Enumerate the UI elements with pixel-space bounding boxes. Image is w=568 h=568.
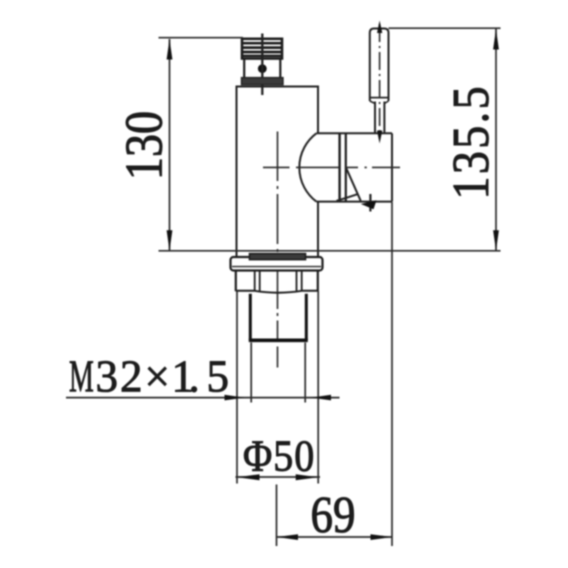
135.5 arrow top	[493, 29, 499, 50]
M32 extension line right	[304, 343, 306, 403]
svg-text:M: M	[69, 353, 94, 402]
phi50 arrow left	[237, 474, 260, 480]
body vertical centerline	[277, 132, 279, 368]
svg-text:130: 130	[115, 111, 174, 180]
cap screw dot	[258, 64, 267, 73]
nut right edge	[317, 271, 319, 292]
lever underside curve	[337, 194, 358, 201]
135.5 arrow bottom	[493, 230, 499, 251]
69 arrow right	[371, 534, 393, 540]
handle shoulder	[370, 97, 389, 99]
phi50 dimension line	[236, 476, 321, 478]
flange collar	[231, 257, 323, 271]
M32 arrow left	[225, 395, 245, 401]
130 arrow top	[167, 39, 173, 60]
faucet body	[237, 87, 319, 257]
outlet flange line 2	[345, 133, 347, 201]
69 extension line left	[276, 485, 278, 547]
lever motion arrow	[361, 200, 377, 209]
handle taper	[370, 101, 389, 104]
130 arrow bottom	[167, 230, 173, 251]
outlet flange line 1	[338, 133, 340, 201]
handle axis centerline	[379, 24, 381, 135]
svg-text:135.5: 135.5	[442, 84, 500, 199]
cap centerline	[261, 34, 263, 96]
nut face line a	[254, 271, 256, 291]
handle stem left	[374, 102, 376, 134]
handle wide part	[370, 29, 389, 102]
outlet ball arc	[299, 133, 316, 201]
69 dimension line	[277, 536, 393, 538]
svg-text:Φ50: Φ50	[243, 433, 315, 481]
M32 extension line left	[250, 343, 252, 403]
handle axis arrow up	[377, 21, 382, 34]
nut face line b	[259, 271, 261, 291]
handle axis arrow down	[377, 131, 382, 144]
phi50 arrow right	[296, 474, 319, 480]
nut left edge	[235, 271, 237, 292]
phi50 extension line left	[236, 291, 238, 484]
side outlet right edge	[391, 133, 393, 201]
side outlet top edge	[316, 132, 392, 134]
135.5 top extension line	[389, 27, 501, 29]
cap dark base band	[242, 78, 284, 85]
nut bottom edge	[236, 291, 318, 293]
lever tip tick	[369, 194, 371, 212]
69 arrow left	[277, 534, 299, 540]
shared bottom extension line	[159, 250, 501, 252]
side outlet bottom edge	[316, 201, 392, 203]
thread tube bottom	[249, 338, 308, 342]
collar inner line	[232, 266, 321, 268]
135.5 dimension line	[495, 29, 497, 251]
outlet horizontal centerline	[263, 166, 400, 168]
nut face line c	[296, 271, 298, 291]
69 extension line right	[391, 202, 393, 546]
svg-text:32×1.5: 32×1.5	[96, 352, 230, 402]
nut face line d	[301, 271, 303, 291]
130 top extension line	[159, 37, 244, 39]
flange top plate	[250, 254, 306, 260]
svg-text:69: 69	[311, 487, 356, 544]
handle stem right	[383, 102, 385, 134]
phi50 extension line right	[317, 291, 319, 484]
knurled cap top band	[242, 39, 282, 59]
M32 arrow right	[311, 395, 331, 401]
M32x1.5 dimension line	[66, 397, 340, 399]
lever rotated position diagonal	[346, 168, 360, 201]
thread tube	[250, 294, 306, 341]
cap middle section	[244, 59, 280, 79]
130 dimension line	[169, 39, 171, 251]
